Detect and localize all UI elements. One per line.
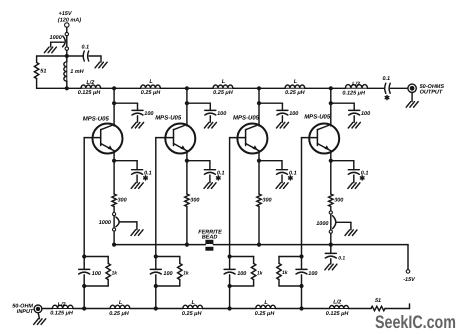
svg-text:1k: 1k xyxy=(257,270,263,276)
resistor 1k (base bias 3) xyxy=(230,257,256,287)
node bias Q2 xyxy=(185,243,189,247)
capacitor 0.1 (bias decoupling) xyxy=(325,245,336,258)
node base network top 4 xyxy=(299,254,303,258)
capacitor 0.1 (emitter bypass 1) xyxy=(132,170,143,175)
svg-text:SeekIC.com: SeekIC.com xyxy=(375,312,456,332)
node bias Q1 xyxy=(112,243,116,247)
wire base line coil to node 2 xyxy=(130,308,156,310)
ground (supply feedthrough) xyxy=(44,42,63,53)
label * (emitter bypass 1) xyxy=(144,176,148,180)
label 0.1 (emitter bypass 4) xyxy=(361,170,369,176)
capacitor 100 pF (collector bypass 3) xyxy=(277,110,288,115)
svg-text:0.1: 0.1 xyxy=(382,76,390,82)
label -15V xyxy=(403,277,416,283)
svg-text:1000: 1000 xyxy=(50,35,62,41)
svg-text:0.1: 0.1 xyxy=(81,45,89,51)
label L (collector coil 2) xyxy=(222,79,226,85)
transistor Q1 MPS-U05 (NPN) xyxy=(84,124,122,161)
node base network bottom 4 xyxy=(299,284,303,288)
wire emitter 4 down xyxy=(330,161,332,194)
label 100 (collector bypass 2) xyxy=(217,111,226,117)
label 0.25 uH (collector coil 2) xyxy=(213,90,234,96)
wire top-left rail xyxy=(37,87,81,89)
wire emitter 3 to bypass cap xyxy=(259,161,282,169)
label OUTPUT xyxy=(420,89,443,95)
capacitor 100 pF (collector bypass 4) xyxy=(349,110,360,115)
wire collector lead 2 xyxy=(186,103,188,126)
feedthrough capacitor 1000 pF (Q4 bias) xyxy=(329,211,336,233)
node base line 3 xyxy=(228,306,232,310)
wire input terminal to L/2 xyxy=(42,308,53,310)
label 1000 (Q4 feedthrough) xyxy=(316,221,328,227)
node emitter 1 xyxy=(112,159,116,163)
capacitor 100 pF (base 3) xyxy=(224,257,235,287)
inductor L 0.25 uH (base line 2-3) xyxy=(183,305,203,308)
label 1000 (Q1 feedthrough) xyxy=(99,220,111,226)
svg-text:0.125 μH: 0.125 μH xyxy=(78,90,102,96)
node collector line 1 xyxy=(112,86,116,90)
wire emitter 2 down xyxy=(186,161,188,194)
label 1k (base bias 1) xyxy=(112,270,118,276)
label L/2 (top right) xyxy=(352,81,360,87)
label 300 (emitter 4) xyxy=(334,198,343,204)
label 100 (collector bypass 1) xyxy=(144,111,153,117)
label 0.125 uH (top right) xyxy=(342,91,366,97)
node rail termination junction xyxy=(65,86,69,90)
wire collector bypass cap 4 to ground xyxy=(353,116,355,122)
label 0.1 (emitter bypass 2) xyxy=(217,170,225,176)
feedthrough capacitor 1000 pF (Q1 bias) xyxy=(113,213,120,232)
wire collector lead 1 xyxy=(113,103,115,126)
label L (collector coil 1) xyxy=(149,79,153,85)
svg-text:100: 100 xyxy=(163,271,172,277)
ground (output terminal) xyxy=(406,102,418,108)
resistor 51 (base line termination) xyxy=(371,306,385,310)
inductor L/2 0.125 uH (base line, left) xyxy=(52,305,73,308)
wire emitter 1 to bypass cap xyxy=(114,161,137,169)
label 50-OHM xyxy=(12,304,33,310)
ground (emitter bypass 3) xyxy=(276,183,288,189)
label 100 (base 4) xyxy=(308,271,317,277)
svg-text:1k: 1k xyxy=(112,270,118,276)
node collector branch 2 xyxy=(185,101,189,105)
label 0.125 uH (bottom right) xyxy=(326,311,350,317)
node collector branch 1 xyxy=(112,101,116,105)
svg-text:MPS-U05: MPS-U05 xyxy=(304,114,331,121)
label 100 (base 2) xyxy=(163,271,172,277)
svg-text:0.25 μH: 0.25 μH xyxy=(182,311,203,317)
wire Q4 emitter resistor to feedthrough xyxy=(330,207,332,211)
wire Q1 feedthrough to bias line xyxy=(113,231,115,245)
wire base network 2 to input line xyxy=(155,286,157,309)
node base network bottom 3 xyxy=(228,284,232,288)
ground (Q4 feedthrough) xyxy=(336,222,357,235)
label BEAD xyxy=(202,235,218,241)
wire output terminal to ground xyxy=(411,93,413,102)
label 300 (emitter 3) xyxy=(262,198,271,204)
svg-text:100: 100 xyxy=(289,111,298,117)
capacitor 0.1 (emitter bypass 4) xyxy=(348,170,359,175)
label L (collector coil 3) xyxy=(294,79,298,85)
wire L/2 to output coupling cap xyxy=(368,87,385,89)
wire base line node 1 to coil xyxy=(84,308,110,310)
inductor L/2 0.125 uH (collector line, left) xyxy=(81,85,101,88)
wire coupling cap to output terminal xyxy=(390,87,407,89)
inductor L/2 0.125 uH (base line, right) xyxy=(330,305,349,308)
node emitter 2 xyxy=(185,159,189,163)
svg-text:0.1: 0.1 xyxy=(338,256,345,262)
label 1000 (supply feedthrough) xyxy=(50,35,62,41)
node supply junction xyxy=(65,54,69,58)
capacitor 100 pF (base 2) xyxy=(150,257,161,287)
wire base line Q2 xyxy=(155,138,157,257)
svg-text:MPS-U05: MPS-U05 xyxy=(155,115,182,122)
wire base node 4 to right L/2 xyxy=(302,308,330,310)
label 100 (base 3) xyxy=(237,271,246,277)
ground (collector bypass 4) xyxy=(348,122,360,128)
label (120 mA) xyxy=(58,18,81,24)
svg-text:0.125 μH: 0.125 μH xyxy=(50,311,74,317)
label L/2 (top left) xyxy=(86,80,94,86)
svg-text:1k: 1k xyxy=(282,270,288,276)
wire base network 4 to input line xyxy=(301,286,303,309)
node emitter 4 xyxy=(329,159,333,163)
node emitter 3 xyxy=(257,159,261,163)
label MPS-U05 (Q2) xyxy=(155,115,182,122)
node base line 1 xyxy=(82,306,86,310)
label L/2 (bottom right) xyxy=(333,300,341,306)
label 0.25 uH (collector coil 1) xyxy=(141,90,162,96)
wire rail node 3 to coil xyxy=(259,87,285,89)
ground (Q1 feedthrough) xyxy=(120,222,143,236)
svg-text:MPS-U05: MPS-U05 xyxy=(233,114,260,121)
capacitor 100 pF (base 1) xyxy=(79,257,90,287)
label L (base coil 2) xyxy=(192,300,196,306)
wire base network 1 to input line xyxy=(83,286,85,309)
ground (emitter bypass 2) xyxy=(204,183,216,189)
wire rail node 4 to right L/2 xyxy=(331,87,346,89)
ferrite bead (bias line) xyxy=(205,240,213,251)
resistor 1k (base bias 4) xyxy=(277,257,302,287)
wire emitter bypass cap 4 to ground xyxy=(353,175,355,183)
svg-text:L/2: L/2 xyxy=(352,81,360,87)
svg-text:1000: 1000 xyxy=(316,221,328,227)
label 0.125 uH (bottom left) xyxy=(50,311,74,317)
label 1k (base bias 2) xyxy=(183,270,189,276)
label 100 (collector bypass 3) xyxy=(289,111,298,117)
svg-text:100: 100 xyxy=(144,111,153,117)
ground (collector bypass 1) xyxy=(132,122,144,128)
inductor L 0.25 uH (collector line 3-4) xyxy=(285,85,305,88)
wire base line node 3 to coil xyxy=(230,308,256,310)
wire bias line Q3-Q4 xyxy=(259,244,331,246)
wire collector node 2 down xyxy=(186,88,188,103)
wire to collector bypass cap 2 xyxy=(187,103,210,109)
label INPUT xyxy=(17,309,34,315)
svg-text:INPUT: INPUT xyxy=(17,309,34,315)
svg-text:0.25 μH: 0.25 μH xyxy=(255,311,276,317)
wire base line coil to node 3 xyxy=(203,308,230,310)
wire Q3 emitter resistor to bias line xyxy=(258,207,260,245)
capacitor 0.1 (emitter bypass 3) xyxy=(277,170,288,175)
node base network bottom 2 xyxy=(154,284,158,288)
svg-text:L/2: L/2 xyxy=(86,80,94,86)
label L (base coil 3) xyxy=(264,300,268,306)
wire bias line ferrite bead to Q3 xyxy=(213,244,259,246)
inductor L 0.25 uH (base line 3-4) xyxy=(256,305,276,308)
transistor Q3 MPS-U05 (NPN) xyxy=(230,124,268,161)
wire collector node 4 down xyxy=(330,88,332,103)
wire emitter 2 to bypass cap xyxy=(187,161,210,169)
wire Q1 emitter resistor to feedthrough xyxy=(113,207,115,213)
label * (output coupling) xyxy=(385,96,389,100)
label 300 (emitter 1) xyxy=(118,198,127,204)
input terminal 50 ohm xyxy=(34,305,42,313)
label L (base coil 1) xyxy=(119,300,123,306)
label 0.25 uH (base coil 1) xyxy=(109,311,130,317)
svg-text:100: 100 xyxy=(237,271,246,277)
label * (emitter bypass 2) xyxy=(216,176,220,180)
wire base line Q3 xyxy=(229,138,231,257)
wire emitter bypass cap 2 to ground xyxy=(209,175,211,183)
wire emitter 3 down xyxy=(258,161,260,194)
svg-text:300: 300 xyxy=(118,198,127,204)
label 0.25 uH (base coil 2) xyxy=(182,311,203,317)
wire base line Q4 xyxy=(301,138,303,257)
resistor 1k (base bias 1) xyxy=(84,257,110,287)
svg-text:0.125 μH: 0.125 μH xyxy=(326,311,350,317)
wire emitter bypass cap 3 to ground xyxy=(281,175,283,183)
transistor Q2 MPS-U05 (NPN) xyxy=(156,124,196,161)
label * (emitter bypass 4) xyxy=(360,176,364,180)
wire base line Q1 xyxy=(83,138,85,257)
inductor L 0.25 uH (base line 1-2) xyxy=(110,305,130,308)
wire supply horizontal left xyxy=(37,55,67,57)
svg-text:100: 100 xyxy=(308,271,317,277)
wire collector node 3 down xyxy=(258,88,260,103)
svg-text:1k: 1k xyxy=(183,270,189,276)
label MPS-U05 (Q1) xyxy=(83,115,110,122)
wire base network 3 to input line xyxy=(229,286,231,309)
svg-text:0.25 μH: 0.25 μH xyxy=(109,311,130,317)
ground (collector bypass 2) xyxy=(204,122,216,128)
label 0.1 (bias decoupling) xyxy=(338,256,345,262)
wire rail coil to node 2 xyxy=(160,87,187,89)
svg-text:0.25 μH: 0.25 μH xyxy=(213,90,234,96)
capacitor 0.1 (supply bypass) xyxy=(83,51,89,61)
svg-text:0.25 μH: 0.25 μH xyxy=(141,90,162,96)
capacitor 100 pF (base 4) xyxy=(296,257,307,287)
inductor L 0.25 uH (collector line 2-3) xyxy=(213,85,233,88)
capacitor 100 pF (collector bypass 2) xyxy=(205,110,216,115)
capacitor 100 pF (collector bypass 1) xyxy=(132,110,143,115)
ground (supply bypass) xyxy=(95,62,107,68)
resistor 300 (emitter 3) xyxy=(257,194,261,207)
wire rail node 1 to coil xyxy=(114,87,141,89)
wire left L/2 to base node 1 xyxy=(73,308,84,310)
capacitor 0.1 (emitter bypass 2) xyxy=(204,170,215,175)
resistor 300 (emitter 4) xyxy=(329,194,333,207)
resistor 51 (collector-line termination) xyxy=(34,56,38,88)
svg-text:1 mH: 1 mH xyxy=(70,69,84,75)
label 51 (base termination) xyxy=(375,298,381,304)
label 100 (base 1) xyxy=(92,271,101,277)
resistor 1k (base bias 2) xyxy=(156,257,182,287)
label 1k (base bias 4) xyxy=(282,270,288,276)
wire input terminal to ground xyxy=(38,313,39,319)
node base network top 2 xyxy=(154,254,158,258)
inductor 1 mH (RF choke) xyxy=(64,56,67,88)
wire right L/2 to 51 resistor xyxy=(349,308,372,310)
wire supply to collector-line junction xyxy=(66,50,68,56)
wire rail L/2 to node 1 xyxy=(101,87,115,89)
node collector line 3 xyxy=(257,86,261,90)
svg-text:MPS-U05: MPS-U05 xyxy=(83,115,110,122)
node collector line 2 xyxy=(185,86,189,90)
resistor 300 (emitter 1) xyxy=(112,194,116,207)
label MPS-U05 (Q4) xyxy=(304,114,331,121)
wire base line coil to node 4 xyxy=(275,308,301,310)
wire bias decoupling cap to ground xyxy=(330,259,332,264)
label L/2 (bottom left) xyxy=(58,302,66,308)
wire collector bypass cap 3 to ground xyxy=(281,116,283,122)
label 50-OHMS xyxy=(420,84,445,90)
svg-text:300: 300 xyxy=(334,198,343,204)
label 0.1 (supply bypass) xyxy=(81,45,89,51)
watermark SeekIC.com xyxy=(375,312,456,332)
label 1 mH xyxy=(70,69,84,75)
output terminal 50 ohms xyxy=(408,84,417,92)
capacitor 0.1 (output coupling) xyxy=(385,83,391,93)
svg-text:BEAD: BEAD xyxy=(202,235,218,241)
ground (bias decoupling) xyxy=(325,264,337,270)
node collector branch 3 xyxy=(257,101,261,105)
wire supply horizontal right xyxy=(67,55,84,57)
svg-text:100: 100 xyxy=(361,111,370,117)
wire base line node 2 to coil xyxy=(156,308,183,310)
ground (collector bypass 3) xyxy=(277,122,289,128)
svg-text:1000: 1000 xyxy=(99,220,111,226)
node base network top 3 xyxy=(228,254,232,258)
feedthrough capacitor 1000 pF (supply line) xyxy=(63,32,69,50)
svg-text:300: 300 xyxy=(190,198,199,204)
svg-text:-15V: -15V xyxy=(403,277,416,283)
label FERRITE xyxy=(198,229,222,235)
svg-text:0.25 μH: 0.25 μH xyxy=(285,90,306,96)
resistor 300 (emitter 2) xyxy=(185,194,189,207)
inductor L 0.25 uH (collector line 1-2) xyxy=(141,85,161,88)
wire rail node 2 to coil xyxy=(187,87,213,89)
svg-text:0.125 μH: 0.125 μH xyxy=(342,91,366,97)
wire emitter 4 to bypass cap xyxy=(331,161,354,169)
wire base termination to end xyxy=(385,304,410,309)
wire emitter bypass cap 1 to ground xyxy=(136,175,138,183)
node base network bottom 1 xyxy=(82,284,86,288)
wire bias line to -15V xyxy=(331,245,408,270)
label +15V xyxy=(59,11,73,17)
wire to collector bypass cap 1 xyxy=(114,103,137,109)
wire bypass cap to ground xyxy=(89,56,101,62)
label MPS-U05 (Q3) xyxy=(233,114,260,121)
label 0.1 (emitter bypass 3) xyxy=(289,170,297,176)
svg-text:(120 mA): (120 mA) xyxy=(58,18,81,24)
inductor L/2 0.125 uH (collector line, right) xyxy=(345,85,367,89)
svg-text:300: 300 xyxy=(262,198,271,204)
wire Q4 feedthrough to bias line xyxy=(330,233,332,244)
label 100 (collector bypass 4) xyxy=(361,111,370,117)
node collector branch 4 xyxy=(329,101,333,105)
svg-text:51: 51 xyxy=(40,69,46,75)
wire bias line Q2 to ferrite bead xyxy=(187,244,206,246)
wire collector bypass cap 2 to ground xyxy=(209,116,211,122)
node base line 4 xyxy=(299,306,303,310)
svg-text:L/2: L/2 xyxy=(58,302,66,308)
wire collector lead 3 xyxy=(258,103,260,126)
svg-text:51: 51 xyxy=(375,298,381,304)
transistor Q4 MPS-U05 (NPN) xyxy=(302,124,340,161)
label 0.1 (emitter bypass 1) xyxy=(144,170,152,176)
power terminal -15V xyxy=(406,270,410,274)
wire rail coil to node 4 xyxy=(305,87,331,89)
node base line 2 xyxy=(154,306,158,310)
power terminal +15V xyxy=(65,23,69,33)
label * (emitter bypass 3) xyxy=(289,176,293,180)
node collector line 4 xyxy=(329,86,333,90)
wire collector lead 4 xyxy=(330,103,332,126)
wire to collector bypass cap 3 xyxy=(259,103,282,109)
label 0.1 (output coupling) xyxy=(382,76,390,82)
wire collector bypass cap 1 to ground xyxy=(137,116,139,122)
node bias Q3 xyxy=(257,243,261,247)
ground (input terminal) xyxy=(34,319,46,325)
svg-text:L/2: L/2 xyxy=(333,300,341,306)
label 0.25 uH (base coil 3) xyxy=(255,311,276,317)
wire rail coil to node 3 xyxy=(233,87,259,89)
label 300 (emitter 2) xyxy=(190,198,199,204)
svg-text:100: 100 xyxy=(217,111,226,117)
wire emitter 1 down xyxy=(113,161,115,194)
wire Q2 emitter resistor to bias line xyxy=(186,207,188,245)
wire collector node 1 down xyxy=(113,88,115,103)
label 0.25 uH (collector coil 3) xyxy=(285,90,306,96)
label 0.125 uH (top left) xyxy=(78,90,102,96)
ground (emitter bypass 4) xyxy=(348,183,360,189)
node bias Q4 xyxy=(329,243,333,247)
ground (emitter bypass 1) xyxy=(131,183,143,189)
svg-text:100: 100 xyxy=(92,271,101,277)
node base network top 1 xyxy=(82,254,86,258)
label 51 (termination) xyxy=(40,69,46,75)
label 1k (base bias 3) xyxy=(257,270,263,276)
svg-text:+15V: +15V xyxy=(59,11,73,17)
wire to collector bypass cap 4 xyxy=(331,103,354,109)
svg-text:OUTPUT: OUTPUT xyxy=(420,89,443,95)
wire bias line Q1-Q2 xyxy=(114,244,187,246)
